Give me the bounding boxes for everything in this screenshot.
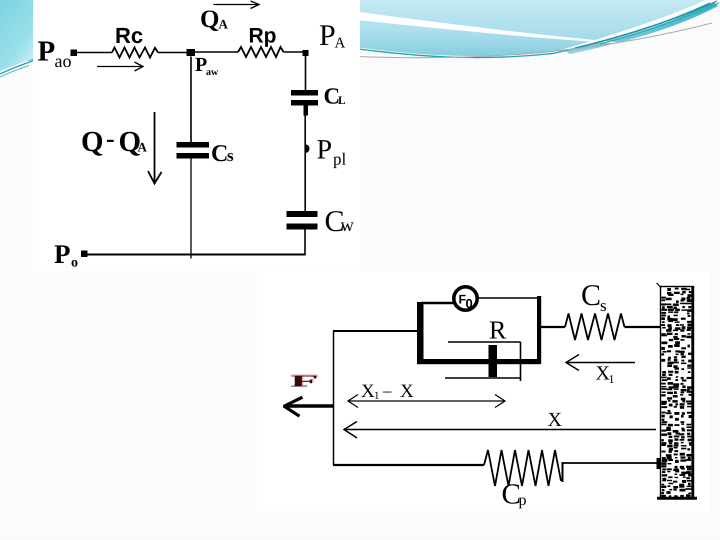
wire Paw node to Rp bbox=[195, 51, 238, 53]
wire CW down to bottom wire bbox=[304, 230, 306, 256]
spring Cp end bar bbox=[562, 462, 564, 482]
arrow X1 minus X (double) bbox=[348, 395, 505, 408]
damper cylinder bbox=[445, 342, 521, 381]
label F0 bbox=[459, 293, 473, 312]
svg-text:aw: aw bbox=[206, 67, 219, 78]
svg-text:A: A bbox=[219, 17, 229, 32]
wall (fixed support) bbox=[657, 283, 698, 498]
svg-text:C: C bbox=[581, 279, 601, 312]
svg-text:X: X bbox=[361, 381, 375, 402]
spring Cs lead left bbox=[541, 326, 565, 328]
wire Rp to PA node bbox=[284, 51, 305, 53]
wave thin teal line 1 bbox=[355, 3, 710, 58]
svg-text:C: C bbox=[211, 141, 228, 167]
svg-text:P: P bbox=[319, 19, 336, 52]
svg-text:o: o bbox=[71, 256, 78, 271]
label CS bbox=[211, 141, 234, 167]
label Paw bbox=[195, 54, 219, 78]
svg-text:X: X bbox=[400, 381, 414, 402]
arrow X bbox=[344, 422, 656, 439]
background wave band bbox=[0, 0, 706, 62]
capacitor CL bbox=[291, 90, 318, 116]
wire Rc to Paw node bbox=[158, 52, 187, 54]
label CW bbox=[325, 205, 355, 238]
label Pao bbox=[38, 36, 72, 72]
label F bbox=[290, 372, 321, 391]
wave thin teal line 2 bbox=[575, 1, 717, 48]
svg-text:Q: Q bbox=[200, 6, 219, 33]
svg-text:A: A bbox=[335, 36, 346, 52]
wave gray line bbox=[345, 23, 712, 58]
label CL bbox=[324, 84, 347, 109]
node Paw square bbox=[187, 49, 196, 56]
svg-text:p: p bbox=[519, 492, 527, 509]
capacitor CS bbox=[177, 142, 210, 159]
label X1 bbox=[596, 363, 615, 387]
wave white strip bbox=[338, 9, 650, 45]
spring Cs bbox=[565, 314, 625, 341]
svg-text:1: 1 bbox=[609, 372, 615, 386]
svg-text:1: 1 bbox=[374, 390, 380, 402]
wall hatch texture bbox=[661, 288, 692, 499]
svg-text:A: A bbox=[138, 140, 148, 155]
bottom rod right to wall bbox=[563, 462, 660, 464]
damper piston bbox=[489, 345, 498, 377]
spring Cs lead right bbox=[625, 326, 661, 328]
rod bracket to force source F0 bbox=[421, 302, 453, 304]
left corner teal line 2 bbox=[0, 66, 29, 78]
bottom wire Po to right branch bbox=[87, 254, 306, 256]
node PA square bbox=[303, 50, 309, 56]
down arrow Q-QA bbox=[148, 112, 162, 184]
damper bracket (U frame) bbox=[417, 296, 541, 364]
label Cp bbox=[502, 479, 527, 511]
wire CL to Ppl to CW bbox=[304, 116, 306, 212]
svg-text:R: R bbox=[489, 316, 507, 345]
svg-text:w: w bbox=[341, 216, 355, 236]
resistor Rc bbox=[112, 48, 158, 58]
wire CS down across bottom wire bbox=[190, 159, 192, 259]
force source F0 circle bbox=[454, 287, 477, 310]
svg-text:Q: Q bbox=[81, 126, 104, 158]
svg-text:P: P bbox=[317, 135, 333, 166]
label PA bbox=[319, 19, 346, 52]
svg-text:P: P bbox=[54, 239, 71, 269]
svg-text:pl: pl bbox=[333, 150, 347, 169]
node Po square bbox=[81, 251, 88, 258]
left vertical rod bbox=[333, 331, 335, 465]
svg-text:X: X bbox=[548, 409, 563, 431]
spring Cp bbox=[484, 450, 561, 486]
flow arrow under Rc bbox=[97, 62, 143, 71]
label QA bbox=[200, 6, 229, 33]
white panel of mechanical diagram bbox=[257, 272, 709, 511]
svg-text:–: – bbox=[382, 381, 392, 400]
svg-text:F: F bbox=[290, 373, 319, 391]
wire PA node down to CL bbox=[305, 55, 307, 90]
capacitor CW bbox=[287, 211, 318, 230]
label Cs spring bbox=[581, 279, 607, 315]
wave corner dark sliver bbox=[565, 2, 718, 54]
svg-text:L: L bbox=[338, 95, 346, 107]
svg-text:P: P bbox=[38, 36, 56, 68]
label Ppl bbox=[317, 135, 347, 169]
white panel of circuit diagram bbox=[33, 0, 360, 271]
svg-text:s: s bbox=[600, 296, 607, 315]
svg-text:0: 0 bbox=[466, 296, 473, 311]
label Po bbox=[54, 239, 78, 271]
left corner cyan block bbox=[0, 0, 36, 71]
flow arrow above QA bbox=[214, 1, 260, 9]
resistor Rp bbox=[238, 47, 284, 57]
wire Paw node down to CS bbox=[190, 57, 192, 143]
top rod to damper bracket bbox=[333, 330, 417, 332]
rod F0 to right bracket bar bbox=[478, 297, 538, 299]
arrow X1 bbox=[566, 355, 635, 371]
label Q minus QA bbox=[81, 124, 148, 158]
svg-text:-: - bbox=[106, 124, 115, 153]
left corner teal line 1 bbox=[0, 60, 35, 74]
node Ppl dot bbox=[305, 144, 309, 153]
svg-text:Rc: Rc bbox=[115, 23, 143, 48]
svg-text:Rp: Rp bbox=[249, 25, 277, 48]
arrow F (force) bbox=[284, 397, 334, 416]
bottom rod left bbox=[333, 464, 484, 466]
wire Pao to Rc bbox=[77, 52, 112, 54]
svg-text:s: s bbox=[227, 146, 234, 165]
svg-text:ao: ao bbox=[55, 51, 72, 71]
node Pao square bbox=[71, 50, 78, 57]
label X1 minus X bbox=[361, 381, 414, 402]
